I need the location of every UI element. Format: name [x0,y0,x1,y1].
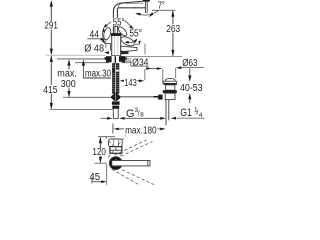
svg-text:Ø34: Ø34 [132,56,149,68]
faucet body [112,34,121,56]
dimension 40-53 [189,68,191,76]
dimension 415 line (lower segment) [50,56,52,109]
svg-text:263: 263 [166,24,180,35]
top view lever bar [112,161,150,166]
deck bottom line left [75,62,109,64]
deck top line left [57,58,110,60]
waste upper body [166,85,175,90]
extension line from outlet stub lower [144,69,146,80]
top view cartridge box [110,147,122,154]
dimension 143 [120,80,125,83]
svg-text:300: 300 [61,79,76,90]
waste flange [164,81,177,83]
extension line at waste left [162,69,164,84]
body top cap band [111,33,121,36]
415 bottom reference line [50,108,113,110]
base ring right block [119,56,125,62]
shank white gap [116,70,120,72]
deck lines right of base [121,58,131,60]
svg-text:143: 143 [124,78,137,89]
dimension 291 line [50,2,52,55]
label 55deg no2 [129,29,143,37]
G1 1/4 underline with arrow [176,117,204,119]
base ring center [112,56,119,63]
small dim arrows between stub and waste ext [149,68,158,70]
max.300 bottom reference line [63,96,112,98]
svg-text:Ø 48: Ø 48 [84,42,104,54]
spout inner highlight line [118,3,143,7]
lever wedge pointing right [121,46,137,52]
handle lever right position lower lobe [120,35,136,48]
pop-up waste dome knob [165,78,175,81]
top view body circle [109,157,122,170]
extension line from outlet stub upper [144,44,146,55]
svg-text:291: 291 [44,21,58,32]
leader from 55-1 right with arrow [125,20,133,28]
base ring left block [106,56,112,62]
center extension line [95,162,107,164]
lever left nub (dark arrow shape) [104,51,109,54]
svg-text:max.: max. [57,69,77,80]
svg-text:40-53: 40-53 [180,83,203,94]
waste lock nut band [163,90,177,93]
base center line [114,56,116,63]
lever thin tail [135,43,140,45]
lower hose nut [112,101,120,104]
waste lower body [165,93,175,99]
svg-text:max.180: max.180 [125,125,157,136]
415 arrows [50,56,53,110]
dimension max.180 [112,123,114,133]
7 degree arc with arrows [136,14,153,15]
svg-text:55°: 55° [113,17,125,28]
svg-text:G1: G1 [180,107,192,119]
leader from 55-1 left [104,22,110,27]
44 extension line [105,33,107,49]
pop-up rod line to waste [120,96,154,98]
lever wedge dark underside [121,51,129,55]
threaded shank below deck [112,63,119,93]
263 extension line from spout [152,9,176,11]
svg-text:415: 415 [43,85,58,96]
55deg arc left [103,28,105,43]
svg-text:8: 8 [140,112,144,119]
handle lever left position [103,27,112,41]
counter line right (reference for 263) [121,56,182,58]
handle lever neutral stem [115,27,118,35]
dashed swivel range lines [105,135,154,185]
shared dimension line under G3/8 to tailpipe [123,117,164,119]
spout outlet stub [145,1,147,13]
label 55deg no1 [112,18,125,26]
dimension max.300 line [68,61,70,97]
spout end cap [143,0,150,2]
rod joint block [158,95,162,100]
shank hex nut (diamond) [111,93,120,101]
segment left of tube [101,117,108,119]
base wings [105,57,107,60]
dimension 263 line [172,11,174,56]
291 arrows [50,0,53,55]
svg-text:55°: 55° [129,29,142,40]
spout tube outline [113,1,145,34]
svg-text:120: 120 [92,147,106,158]
dimension 120 line [99,138,101,163]
supply tube end [113,109,118,119]
extension line from circle [106,163,108,185]
dimension 45 [91,178,93,184]
55deg arc right [126,40,137,43]
top extension line [98,136,115,138]
handle lever right position upper lobe [117,25,128,37]
top view spout column [109,139,123,147]
counter top extension line left (light) [46,54,106,56]
max.300 arrows [67,59,70,97]
dimension max.30 tick, arrow, label [82,62,84,78]
waste tailpipe [165,100,167,126]
